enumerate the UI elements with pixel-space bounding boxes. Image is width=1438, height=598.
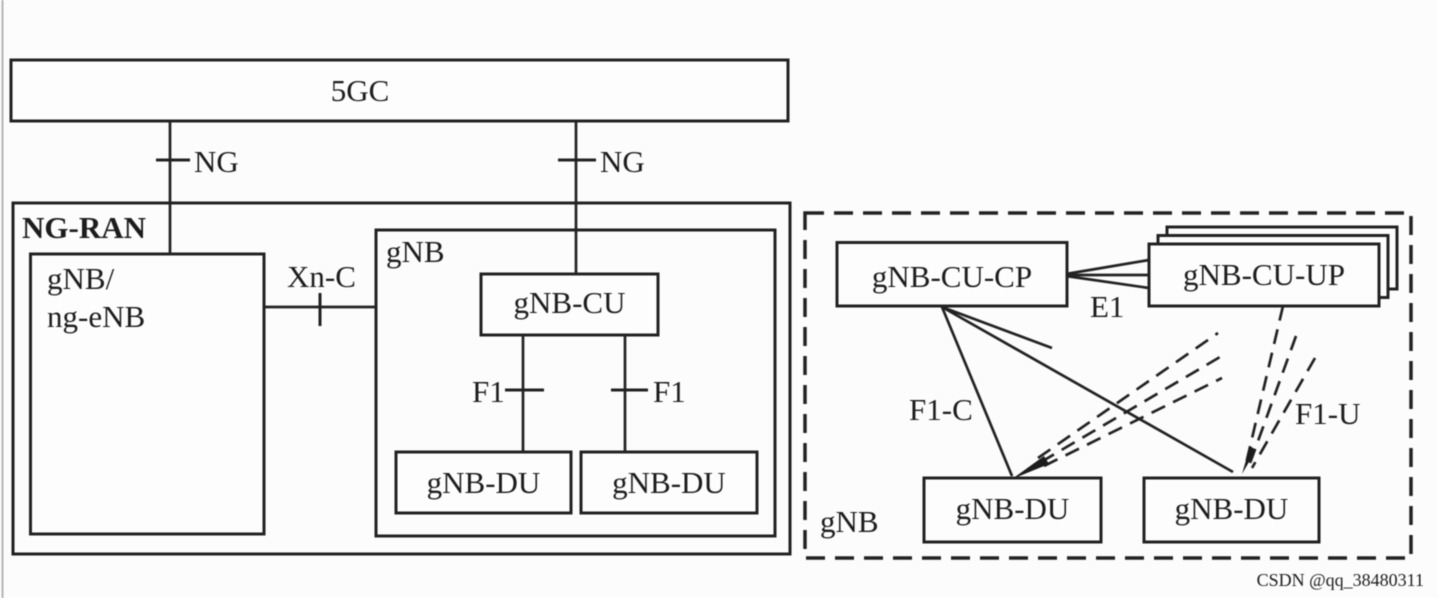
svg-text:ng-eNB: ng-eNB — [47, 299, 145, 334]
svg-text:gNB/: gNB/ — [47, 261, 115, 296]
svg-text:NG-RAN: NG-RAN — [22, 210, 146, 245]
svg-text:F1-C: F1-C — [909, 392, 973, 427]
svg-text:gNB-CU-UP: gNB-CU-UP — [1183, 257, 1345, 292]
svg-text:gNB-DU: gNB-DU — [956, 491, 1070, 526]
svg-text:gNB: gNB — [386, 234, 445, 269]
svg-text:gNB-CU: gNB-CU — [514, 285, 626, 320]
svg-text:F1: F1 — [653, 374, 686, 409]
svg-text:F1-U: F1-U — [1295, 396, 1360, 431]
svg-text:gNB-CU-CP: gNB-CU-CP — [872, 259, 1032, 294]
svg-text:gNB-DU: gNB-DU — [427, 465, 541, 500]
svg-text:NG: NG — [600, 144, 645, 179]
svg-text:gNB: gNB — [820, 504, 879, 539]
svg-text:CSDN @qq_38480311: CSDN @qq_38480311 — [1257, 570, 1424, 590]
svg-text:NG: NG — [194, 144, 239, 179]
svg-text:gNB-DU: gNB-DU — [1175, 491, 1289, 526]
svg-text:Xn-C: Xn-C — [287, 259, 356, 294]
svg-text:gNB-DU: gNB-DU — [612, 465, 726, 500]
svg-text:5GC: 5GC — [331, 73, 390, 108]
svg-text:F1: F1 — [472, 374, 505, 409]
svg-text:E1: E1 — [1090, 289, 1124, 324]
